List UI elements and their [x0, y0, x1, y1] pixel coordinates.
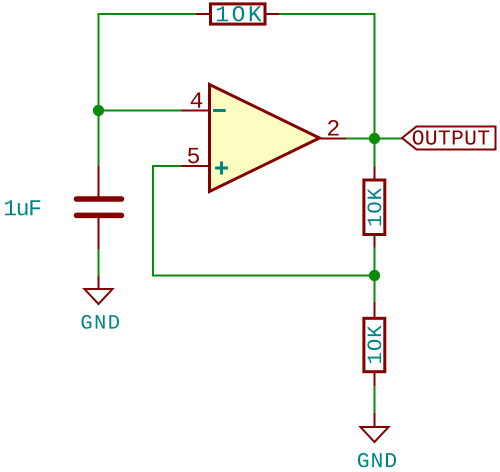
value label 10K (R3) [367, 325, 381, 363]
ground symbol (left) [85, 276, 113, 304]
junction J3 [369, 270, 380, 281]
net label GND (left) [82, 315, 120, 329]
wire node to R3 top [374, 276, 376, 303]
global label OUTPUT [402, 127, 496, 150]
wire capacitor bottom to ground [98, 249, 100, 276]
wire R2 bottom to node [374, 248, 376, 276]
net label GND (right) [358, 453, 396, 467]
pin number 5 [188, 148, 199, 164]
wire top-right horizontal and right vertical [279, 14, 375, 167]
pin number 2 [328, 120, 339, 136]
wire R3 bottom to ground [374, 386, 376, 413]
junction J2 [369, 133, 380, 144]
op-amp U1 [182, 85, 347, 192]
wire feedback route to pin 5 [153, 166, 375, 276]
junction J1 [93, 105, 104, 116]
wire to pin 4 [99, 110, 182, 112]
capacitor C1 [77, 166, 122, 249]
wire left vertical and top-left horizontal [99, 14, 197, 166]
value label 10K (R2) [367, 188, 381, 226]
value label 10K (R1) [217, 6, 262, 21]
ground symbol (right) [361, 413, 389, 442]
resistor R2 [364, 167, 385, 248]
value label 1uF (C1) [5, 200, 40, 215]
resistor R3 [364, 302, 385, 386]
resistor R1 [196, 4, 279, 24]
wire output node to label [346, 138, 402, 140]
pin number 4 [191, 92, 203, 107]
